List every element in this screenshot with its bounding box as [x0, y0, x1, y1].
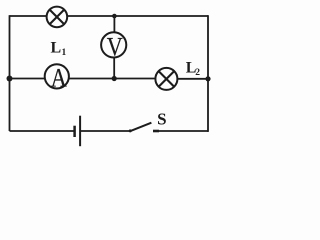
lamp L2: [155, 68, 177, 90]
ammeter A: [45, 64, 69, 93]
wire right vertical: [207, 15, 209, 79]
wire middle-left (left junction to ammeter): [10, 78, 45, 80]
node B (middle junction below voltmeter): [112, 76, 117, 81]
lamp L1: [47, 7, 68, 28]
wire middle-right (lamp L2 to right wire): [177, 78, 208, 80]
wire top-left (left corner to lamp L1): [10, 15, 47, 17]
voltmeter V: [101, 32, 126, 61]
svg-text:A: A: [51, 64, 67, 93]
svg-text:V: V: [107, 33, 123, 62]
wire bottom-left (to battery): [10, 130, 74, 132]
wire middle-center (ammeter to lamp L2, through node B): [69, 78, 156, 80]
label L2: [186, 59, 200, 78]
node A (top junction): [112, 14, 117, 19]
wire bottom-middle (battery to switch): [81, 130, 130, 132]
svg-text:S: S: [157, 110, 166, 129]
node D (right middle junction): [205, 76, 210, 81]
switch S: [129, 123, 159, 133]
node C (left middle junction): [7, 76, 13, 82]
svg-text:L: L: [51, 40, 62, 57]
battery cell: [75, 116, 81, 147]
label L1: [51, 40, 67, 58]
wire right vertical lower: [207, 79, 209, 132]
wire left vertical: [9, 15, 11, 131]
wire voltmeter top lead: [113, 16, 115, 32]
svg-text:1: 1: [62, 48, 67, 58]
wire top-right (lamp L1 to top-right corner): [67, 15, 208, 17]
wire bottom-right (switch to right corner): [153, 130, 208, 132]
svg-text:2: 2: [195, 68, 200, 78]
wire voltmeter bottom lead: [113, 57, 115, 78]
